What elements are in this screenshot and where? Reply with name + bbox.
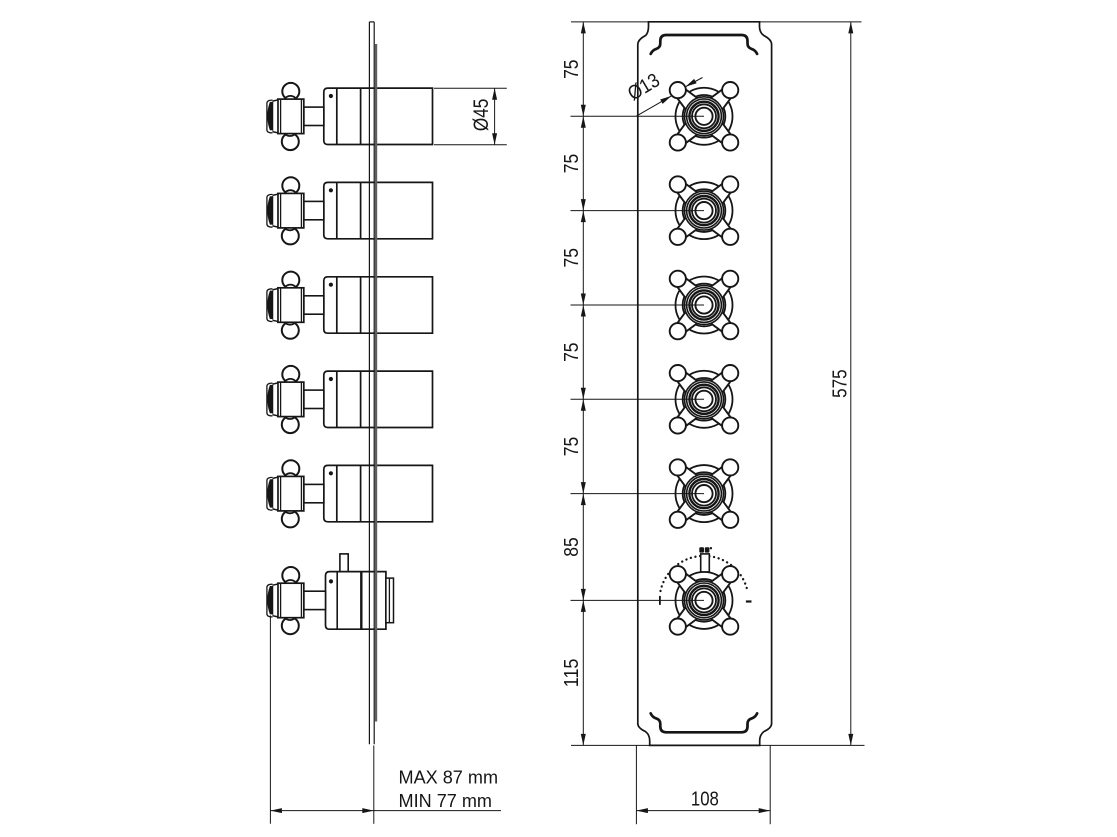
- svg-text:75: 75: [560, 248, 583, 267]
- svg-text:575: 575: [828, 369, 851, 398]
- svg-text:85: 85: [560, 537, 583, 556]
- svg-text:108: 108: [691, 787, 719, 810]
- svg-text:75: 75: [560, 59, 583, 78]
- svg-text:MIN 77 mm: MIN 77 mm: [399, 791, 493, 811]
- svg-text:75: 75: [560, 343, 583, 362]
- svg-text:75: 75: [560, 437, 583, 456]
- svg-text:75: 75: [560, 154, 583, 173]
- svg-text:MAX 87 mm: MAX 87 mm: [399, 767, 499, 787]
- svg-text:115: 115: [560, 659, 583, 688]
- svg-text:Ø45: Ø45: [469, 99, 493, 132]
